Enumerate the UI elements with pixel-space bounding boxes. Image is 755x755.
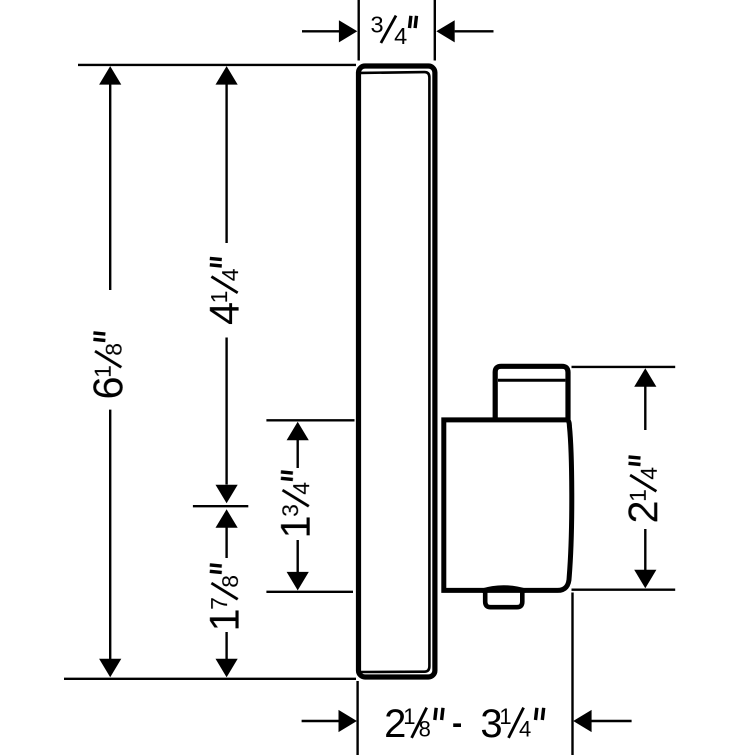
dimension 3/4 right arrowhead xyxy=(436,20,454,42)
plate inner edge line xyxy=(361,72,429,672)
svg-text:1: 1 xyxy=(201,608,248,631)
svg-text:4: 4 xyxy=(201,302,248,325)
svg-text:1: 1 xyxy=(499,704,511,729)
dimension 1 7/8 bottom arrowhead xyxy=(216,659,238,678)
svg-text:4: 4 xyxy=(394,23,407,49)
svg-text:1: 1 xyxy=(90,365,116,378)
dimension 1 3/4 line lower segment xyxy=(297,540,299,573)
dimension 1 3/4 line upper segment xyxy=(297,440,299,468)
dimension 1 7/8 line upper segment xyxy=(225,527,227,558)
svg-text:3: 3 xyxy=(370,12,383,38)
svg-text:6: 6 xyxy=(84,376,131,399)
label 3/4" xyxy=(370,12,416,49)
dimension 1 7/8 top arrowhead xyxy=(216,509,238,528)
dimension bottom right tail xyxy=(591,720,632,722)
dimension 3/4 left arrowhead xyxy=(339,20,357,42)
knob inner line xyxy=(498,379,565,382)
label 1 7/8" xyxy=(201,565,248,632)
svg-text:8: 8 xyxy=(101,343,127,356)
extension line bottom dim right xyxy=(571,593,573,755)
svg-text:1: 1 xyxy=(403,704,415,729)
dimension bottom left arrowhead xyxy=(339,710,357,732)
extension line top-right (3/4 dim, right) xyxy=(434,0,436,61)
extension line top horizontal (shared by 6 1/8 and 4 1/4) xyxy=(78,64,356,66)
dimension 4 1/4 bottom arrowhead xyxy=(216,485,238,504)
dimension 3/4 right tail xyxy=(455,30,494,32)
dimension 6 1/8 bottom arrowhead xyxy=(99,659,121,678)
label 1 3/4" xyxy=(272,472,319,539)
label 4 1/4" xyxy=(201,258,248,325)
dimension 6 1/8 line lower segment xyxy=(109,410,111,659)
svg-text:1: 1 xyxy=(625,489,651,502)
dimension 2 1/4 bottom arrowhead xyxy=(634,570,656,589)
svg-text:1: 1 xyxy=(206,291,232,304)
dimension 4 1/4 line lower segment xyxy=(225,338,227,485)
dimension 2 1/4 line upper segment xyxy=(644,386,646,430)
handle knob xyxy=(495,366,568,419)
extension line top-left (3/4 dim, left) xyxy=(358,0,360,61)
svg-text:4: 4 xyxy=(217,268,243,281)
dimension 4 1/4 line upper segment xyxy=(225,84,227,243)
dimension 6 1/8 line upper segment xyxy=(109,84,111,290)
dimension 2 1/4 line lower segment xyxy=(644,529,646,571)
tab top arc xyxy=(482,587,527,590)
dimension 2 1/4 top arrowhead xyxy=(634,368,656,387)
label 2 1/4" xyxy=(619,457,666,524)
extension line bottom horizontal (shared by 6 1/8 and 1 7/8) xyxy=(64,678,356,680)
escutcheon plate outline xyxy=(359,66,435,677)
dimension 4 1/4 top arrowhead xyxy=(216,66,238,85)
svg-text:2: 2 xyxy=(619,500,666,523)
extension line bottom dim left xyxy=(356,681,358,755)
svg-text:8: 8 xyxy=(217,575,243,588)
bottom tab xyxy=(485,590,522,607)
dimension 3/4 left tail xyxy=(302,30,340,32)
svg-text:4: 4 xyxy=(636,467,662,480)
tick between 4 1/4 and 1 7/8 xyxy=(193,505,248,507)
dimension 6 1/8 top arrowhead xyxy=(99,66,121,85)
dimension bottom right arrowhead xyxy=(573,710,591,732)
dimension 1 7/8 line lower segment xyxy=(225,632,227,659)
dimension 1 3/4 bottom arrowhead xyxy=(287,572,309,591)
svg-text:7: 7 xyxy=(206,597,232,610)
label 2 1/8" - 3 1/4" xyxy=(384,702,544,746)
dimension bottom left tail xyxy=(302,720,340,722)
svg-text:1: 1 xyxy=(272,515,319,538)
extension line 1 3/4 lower xyxy=(266,591,353,593)
svg-text:3: 3 xyxy=(277,504,303,517)
svg-text:4: 4 xyxy=(288,482,314,495)
dimension 1 3/4 top arrowhead xyxy=(287,422,309,441)
extension line 2 1/4 upper xyxy=(572,366,676,368)
label 6 1/8" xyxy=(84,333,131,400)
extension line 1 3/4 upper xyxy=(266,419,354,421)
extension line 2 1/4 lower xyxy=(572,589,676,591)
svg-text:8: 8 xyxy=(419,717,431,742)
handle body xyxy=(444,420,572,591)
svg-text:4: 4 xyxy=(519,717,531,742)
